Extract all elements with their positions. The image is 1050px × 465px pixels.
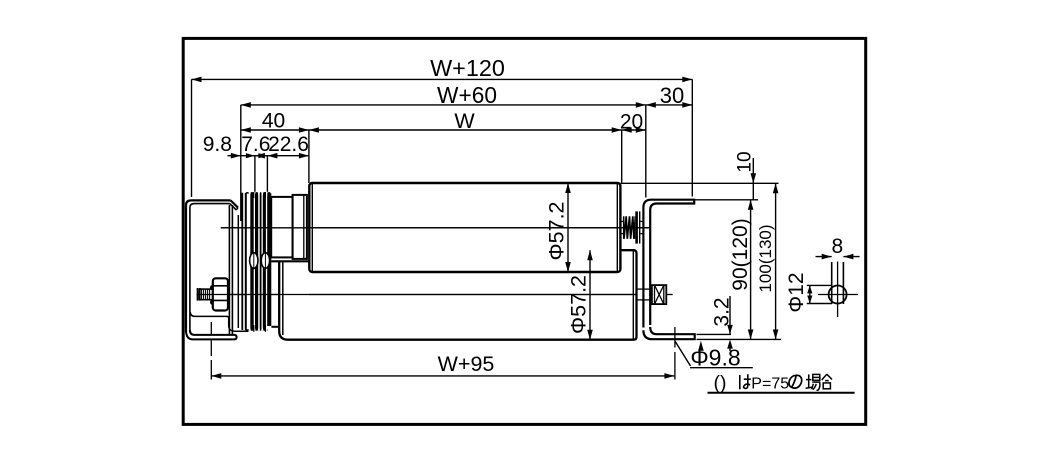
- top flange lip: [231, 200, 238, 207]
- svg-text:10: 10: [734, 151, 755, 172]
- svg-text:(): (): [714, 372, 727, 394]
- left shaft thread: [197, 288, 212, 301]
- kanji ba: [806, 374, 821, 390]
- upper roller boss step A: [271, 197, 292, 258]
- right end spring: [620, 211, 643, 243]
- svg-text:30: 30: [660, 83, 684, 108]
- extension line frame top: [695, 199, 758, 201]
- kanji go: [822, 374, 832, 389]
- groove scallop notches: [248, 192, 267, 197]
- lower axis over tube: [309, 294, 637, 296]
- svg-text:9.8: 9.8: [203, 133, 232, 156]
- set screw block with X mark: [652, 285, 666, 304]
- left frame rail: [186, 200, 249, 339]
- upper roller tube: [309, 183, 620, 272]
- bottom mounting flange: [186, 330, 237, 339]
- hex nut: [210, 278, 228, 310]
- svg-text:P=75: P=75: [751, 376, 789, 393]
- spacer line: [237, 215, 239, 328]
- svg-text:W+120: W+120: [430, 55, 505, 81]
- kana no: [789, 375, 802, 388]
- right frame rail: [643, 200, 694, 340]
- kana ha: [740, 374, 751, 389]
- spring seat washer: [635, 211, 640, 243]
- svg-text:W+60: W+60: [437, 82, 497, 108]
- dimension Phi57.2 upper: [565, 183, 571, 272]
- dimension Phi57.2 lower: [587, 250, 593, 340]
- dimension 3.2: [727, 296, 733, 351]
- shaft cross-section detail: [818, 262, 858, 318]
- belt groove lens left: [250, 253, 258, 269]
- upper axis line overlay: [221, 227, 650, 229]
- dimension W+60 and 30: [241, 102, 693, 221]
- lower roller tube: [271, 250, 636, 340]
- dimension 9.8 / 7.6 / 22.6 row: [228, 153, 309, 192]
- svg-text:W: W: [454, 109, 475, 133]
- pulley hub plate: [241, 193, 243, 330]
- note: parentheses values apply when P=75: [708, 372, 855, 394]
- inner step: [190, 312, 248, 331]
- groove bottom ticks: [253, 325, 255, 332]
- extension line roller top: [621, 182, 779, 184]
- upper roller boss step B: [293, 195, 307, 259]
- dimension W+95: [211, 322, 675, 380]
- leader Phi9.8: [675, 341, 753, 368]
- svg-text:Φ9.8: Φ9.8: [690, 344, 740, 370]
- dimension 100(130): [773, 183, 779, 339]
- border frame: [183, 38, 866, 424]
- svg-text:40: 40: [262, 110, 285, 133]
- dimension Phi12: [807, 285, 832, 303]
- lower roller axis stub at set-screw: [667, 294, 673, 296]
- svg-text:7.6: 7.6: [241, 133, 270, 156]
- extension line flange top: [697, 333, 732, 335]
- dimension 10 and 90(120) shared line: [748, 158, 756, 340]
- svg-text:90(120): 90(120): [729, 218, 752, 290]
- belt groove lens right: [261, 253, 269, 269]
- svg-text:20: 20: [620, 111, 643, 134]
- svg-text:3.2: 3.2: [710, 297, 733, 326]
- svg-text:22.6: 22.6: [268, 133, 309, 156]
- lower shaft right: [637, 288, 652, 290]
- dimension 8: [816, 254, 860, 260]
- upper axis over tube: [309, 227, 650, 229]
- svg-text:100(130): 100(130): [756, 224, 775, 292]
- lower roller axis center line: [197, 294, 638, 296]
- svg-text:Φ57.2: Φ57.2: [567, 275, 591, 334]
- svg-text:8: 8: [831, 235, 843, 258]
- svg-text:W+95: W+95: [438, 352, 495, 376]
- dimension W+120: [192, 77, 693, 197]
- grooved pulley block: [246, 192, 271, 332]
- lower axis line overlay: [197, 294, 638, 296]
- dimension 40 / W / 20 row: [241, 127, 646, 183]
- bearing plate: [228, 205, 230, 335]
- extension line frame bottom: [697, 338, 782, 340]
- svg-text:Φ57.2: Φ57.2: [545, 202, 569, 261]
- svg-text:Φ12: Φ12: [785, 272, 808, 312]
- upper roller axis center line: [221, 227, 650, 229]
